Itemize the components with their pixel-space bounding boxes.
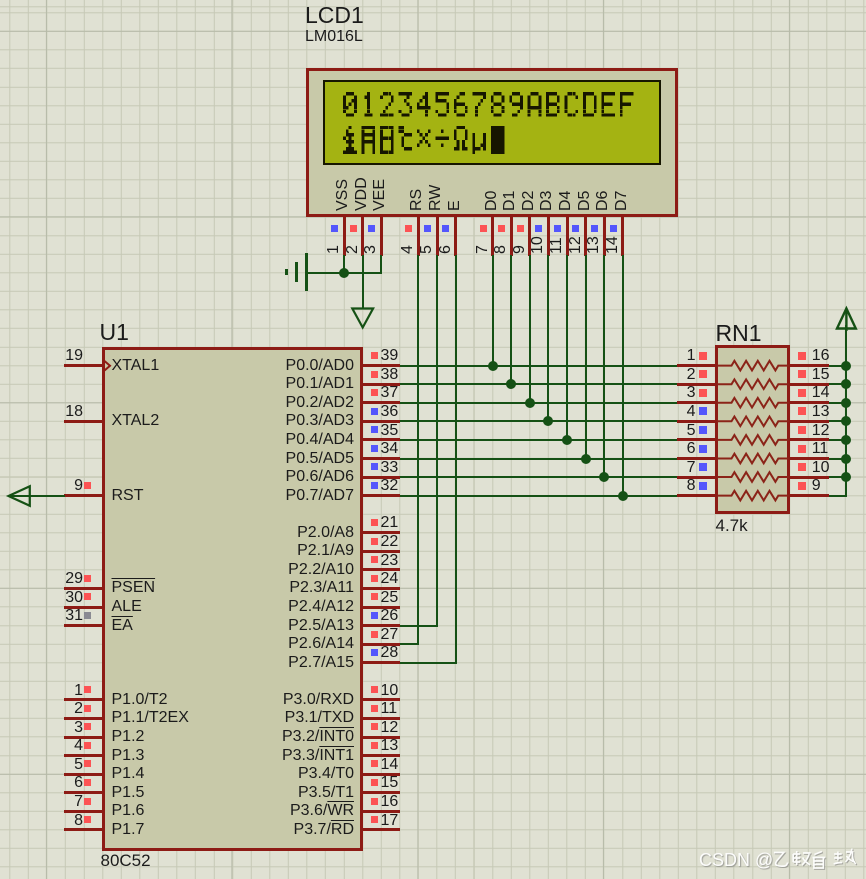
U1 pin 30 stub [64, 606, 103, 609]
junction D1/P0.1 [506, 379, 516, 389]
U1 pin 23 stub [363, 568, 401, 571]
IC U1 80C52 body [102, 347, 363, 852]
U1 pin label <span class="ov">EA [112, 618, 133, 635]
U1 pin label P3.7/RD [230, 822, 354, 839]
wire ground rail [307, 272, 383, 274]
wire P0.5 to RN1 [400, 458, 677, 460]
junction bus row 3 [841, 398, 851, 408]
pin number 4 [400, 245, 417, 254]
LCD pin label VEE [372, 179, 389, 211]
RN1 pin 10 stub [790, 476, 829, 479]
pin number 10 [812, 460, 830, 477]
U1 pin 35 stub [363, 438, 401, 441]
LCD pin label D0 [484, 191, 501, 211]
pin 8 state square [498, 225, 505, 232]
wire P0.1 to RN1 [400, 383, 677, 385]
U1 pin 12 stub [363, 736, 401, 739]
pin 6 state square [84, 779, 91, 786]
pin 3 state square [84, 723, 91, 730]
U1 pin label P1.3 [112, 748, 145, 765]
pin number 14 [812, 385, 830, 402]
U1 pin label P0.1/AD1 [230, 376, 354, 393]
U1 pin label P0.2/AD2 [230, 395, 354, 412]
label RN1 [716, 321, 762, 345]
junction D5/P0.5 [581, 454, 591, 464]
junction bus row 5 [841, 435, 851, 445]
RN1 pin 3 stub [677, 401, 716, 404]
pin 22 state square [371, 538, 378, 545]
ground terminal (down arrow) [350, 306, 376, 331]
pin 30 state square [84, 593, 91, 600]
RN1 pin 14 stub [790, 401, 829, 404]
U1 pin label P3.6/WR [230, 803, 354, 820]
pin number 8 [493, 245, 510, 254]
wire VSS pin1 down [343, 255, 345, 273]
pin number 2 [345, 245, 362, 254]
pin 1 state square [699, 352, 707, 360]
pin number 12 [568, 236, 585, 254]
pin number 1 [23, 683, 83, 700]
U1 pin 11 stub [363, 717, 401, 720]
pin 32 state square [371, 482, 378, 489]
wire RST [10, 495, 65, 497]
U1 pin 15 stub [363, 791, 401, 794]
pin 13 state square [591, 225, 598, 232]
pin number 38 [381, 367, 399, 384]
pin 12 state square [798, 426, 806, 434]
LCD pin 9 stub [528, 216, 531, 256]
U1 pin label P1.0/T2 [112, 692, 168, 709]
LCD screen [323, 80, 661, 164]
pin 10 state square [798, 463, 806, 471]
wire VEE pin3 down [380, 255, 382, 273]
watermark CSDN [699, 850, 773, 871]
pin 11 state square [554, 225, 561, 232]
U1 pin label P3.1/TXD [230, 710, 354, 727]
pin number 30 [23, 590, 83, 607]
junction bus row 6 [841, 454, 851, 464]
pin number 21 [381, 515, 399, 532]
pin number 11 [381, 701, 398, 718]
U1 pin 25 stub [363, 606, 401, 609]
U1 pin 24 stub [363, 587, 401, 590]
pin number 5 [23, 757, 83, 774]
junction D0/P0.0 [488, 361, 498, 371]
U1 pin 26 stub [363, 624, 401, 627]
pin 15 state square [798, 370, 806, 378]
LCD pin label E [447, 200, 464, 211]
pin 16 state square [371, 798, 378, 805]
U1 pin label P3.0/RXD [230, 692, 354, 709]
LCD pin label D7 [614, 191, 631, 211]
LCD pin label D5 [577, 191, 594, 211]
U1 pin label P1.4 [112, 766, 145, 783]
pin 7 state square [480, 225, 487, 232]
RN1 pin 4 stub [677, 420, 716, 423]
wire D4 down [566, 255, 568, 441]
pin number 3 [23, 720, 83, 737]
pin number 9 [812, 478, 821, 495]
pin number 23 [381, 553, 399, 570]
U1 pin 17 stub [363, 828, 401, 831]
LCD LCD1 body [306, 68, 678, 217]
pin number 6 [23, 775, 83, 792]
LCD pin 1 stub [343, 216, 346, 256]
U1 pin 10 stub [363, 698, 401, 701]
junction D3/P0.3 [543, 416, 553, 426]
pin number 3 [636, 385, 696, 402]
resistor pack RN1 body [715, 345, 790, 514]
junction D7/P0.7 [618, 491, 628, 501]
U1 pin 4 stub [64, 754, 103, 757]
pin 2 state square [350, 225, 357, 232]
label LM016L [305, 29, 363, 46]
pin number 7 [636, 460, 696, 477]
pin 5 state square [84, 760, 91, 767]
pin number 13 [586, 236, 603, 254]
U1 pin label P1.6 [112, 803, 145, 820]
U1 pin 19 stub [64, 364, 103, 367]
junction D6/P0.6 [599, 472, 609, 482]
pin 7 state square [699, 463, 707, 471]
pin 9 state square [798, 482, 806, 490]
LCD pin 5 stub [436, 216, 439, 256]
pin number 1 [326, 245, 343, 254]
wire RW down [436, 255, 438, 627]
pin 10 state square [371, 686, 378, 693]
LCD pin label D1 [502, 191, 519, 211]
U1 pin 29 stub [64, 587, 103, 590]
pin 10 state square [535, 225, 542, 232]
pin 5 state square [699, 426, 707, 434]
pin 4 state square [84, 742, 91, 749]
pin 6 state square [699, 445, 707, 453]
U1 pin 14 stub [363, 773, 401, 776]
pin 8 state square [84, 816, 91, 823]
U1 pin label P1.7 [112, 822, 145, 839]
U1 pin label XTAL2 [112, 413, 160, 430]
LCD pin 13 stub [603, 216, 606, 256]
LCD pin 12 stub [584, 216, 587, 256]
LCD display text [323, 80, 661, 165]
pin number 19 [23, 348, 83, 365]
LCD pin label RS [409, 189, 426, 211]
pin number 24 [381, 571, 399, 588]
U1 pin label P2.6/A14 [230, 636, 354, 653]
pin number 31 [23, 608, 83, 625]
pin number 16 [812, 348, 830, 365]
wire P0.0 to RN1 [400, 365, 677, 367]
pin number 7 [23, 794, 83, 811]
wire RN1 pin 15 to bus [829, 383, 847, 385]
pin 33 state square [371, 463, 378, 470]
RN1 pin 12 stub [790, 438, 829, 441]
RN1 pin 11 stub [790, 457, 829, 460]
RN1 pin 9 stub [790, 494, 829, 497]
U1 pin 16 stub [363, 810, 401, 813]
pin number 6 [438, 245, 455, 254]
U1 pin 3 stub [64, 736, 103, 739]
U1 pin 36 stub [363, 420, 401, 423]
U1 pin label P2.1/A9 [230, 543, 354, 560]
U1 pin 31 stub [64, 624, 103, 627]
pin number 15 [812, 367, 830, 384]
pin 27 state square [371, 631, 378, 638]
U1 pin label P0.5/AD5 [230, 451, 354, 468]
pin 12 state square [371, 723, 378, 730]
wire D7 down [622, 255, 624, 497]
wire RN1 pin 13 to bus [829, 420, 847, 422]
pin number 39 [381, 348, 399, 365]
LCD pin 6 stub [454, 216, 457, 256]
U1 pin label P0.7/AD7 [230, 488, 354, 505]
ground symbol [305, 253, 308, 292]
U1 pin label P0.6/AD6 [230, 469, 354, 486]
U1 pin label P0.0/AD0 [230, 358, 354, 375]
U1 pin 2 stub [64, 717, 103, 720]
LCD pin label VDD [354, 177, 371, 211]
LCD pin 14 stub [621, 216, 624, 256]
U1 pin label P3.3/INT1 [230, 748, 354, 765]
LCD pin label D2 [521, 191, 538, 211]
pin 1 state square [331, 225, 338, 232]
LCD pin 2 stub [361, 216, 364, 256]
wire RN1 pin 11 to bus [829, 458, 847, 460]
pin number 29 [23, 571, 83, 588]
pin 14 state square [371, 760, 378, 767]
U1 pin 39 stub [363, 364, 401, 367]
pin number 32 [381, 478, 399, 495]
pin 37 state square [371, 389, 378, 396]
pin 15 state square [371, 779, 378, 786]
U1 pin label P1.2 [112, 729, 145, 746]
power terminal (up arrow) [835, 306, 859, 331]
U1 pin 6 stub [64, 791, 103, 794]
wire power bus [845, 325, 847, 497]
U1 pin label P2.0/A8 [230, 525, 354, 542]
pin number 17 [381, 813, 399, 830]
U1 pin label XTAL1 [112, 358, 160, 375]
pin 29 state square [84, 575, 91, 582]
pin number 36 [381, 404, 399, 421]
U1 pin 9 stub [64, 494, 103, 497]
pin number 2 [23, 701, 83, 718]
U1 pin 1 stub [64, 698, 103, 701]
U1 pin 27 stub [363, 643, 401, 646]
pin number 15 [381, 775, 399, 792]
pin 4 state square [405, 225, 412, 232]
input terminal arrow (RST) [6, 485, 32, 507]
pin number 8 [23, 813, 83, 830]
pin number 33 [381, 460, 399, 477]
pin number 5 [419, 245, 436, 254]
wire D5 down [585, 255, 587, 460]
pin number 11 [549, 237, 566, 254]
LCD pin label D6 [595, 191, 612, 211]
pin number 25 [381, 590, 399, 607]
RN1 pin 2 stub [677, 383, 716, 386]
pin 14 state square [798, 389, 806, 397]
pin 26 state square [371, 612, 378, 619]
junction bus row 4 [841, 416, 851, 426]
pin 35 state square [371, 426, 378, 433]
RN1 pin 1 stub [677, 364, 716, 367]
pin 36 state square [371, 408, 378, 415]
U1 pin label RST [112, 488, 144, 505]
junction bus row 7 [841, 472, 851, 482]
LCD pin label RW [428, 185, 445, 211]
pin number 27 [381, 627, 399, 644]
junction D4/P0.4 [562, 435, 572, 445]
RN1 pin 16 stub [790, 364, 829, 367]
pin 6 state square [442, 225, 449, 232]
pin 2 state square [699, 370, 707, 378]
pin number 10 [530, 236, 547, 254]
wire P0.2 to RN1 [400, 402, 677, 404]
LCD pin label D4 [558, 191, 575, 211]
RN1 pin 5 stub [677, 438, 716, 441]
label LCD1 [305, 3, 364, 27]
RN1 pin 8 stub [677, 494, 716, 497]
U1 pin label P2.4/A12 [230, 599, 354, 616]
pin 28 state square [371, 649, 378, 656]
U1 pin 34 stub [363, 457, 401, 460]
U1 pin label P2.2/A10 [230, 562, 354, 579]
pin number 11 [812, 441, 829, 458]
pin 25 state square [371, 593, 378, 600]
pin number 1 [636, 348, 696, 365]
U1 pin 21 stub [363, 531, 401, 534]
LCD pin 4 stub [417, 216, 420, 256]
wire RS down [417, 255, 419, 646]
pin number 9 [23, 478, 83, 495]
junction bus row 1 [841, 361, 851, 371]
U1 pin label ALE [112, 599, 142, 616]
wire P0.3 to RN1 [400, 420, 677, 422]
pin 17 state square [371, 816, 378, 823]
pin number 12 [381, 720, 399, 737]
U1 pin label P3.4/T0 [230, 766, 354, 783]
U1 pin label <span class="ov">PSEN [112, 580, 156, 597]
U1 pin 13 stub [363, 754, 401, 757]
pin number 14 [381, 757, 399, 774]
pin 5 state square [424, 225, 431, 232]
pin 23 state square [371, 556, 378, 563]
U1 pin 18 stub [64, 420, 103, 423]
LCD pin label D3 [539, 191, 556, 211]
pin number 6 [636, 441, 696, 458]
U1 pin label P3.2/INT0 [230, 729, 354, 746]
U1 pin 32 stub [363, 494, 401, 497]
wire D6 down [603, 255, 605, 478]
wire D0 down [492, 255, 494, 367]
pin 11 state square [371, 705, 378, 712]
pin 4 state square [699, 407, 707, 415]
U1 pin label P0.3/AD3 [230, 413, 354, 430]
label 80C52 [101, 852, 151, 870]
RN1 pin 13 stub [790, 420, 829, 423]
LCD pin 11 stub [566, 216, 569, 256]
pin number 37 [381, 385, 399, 402]
pin number 4 [636, 404, 696, 421]
pin 34 state square [371, 445, 378, 452]
pin 3 state square [368, 225, 375, 232]
U1 pin 28 stub [363, 661, 401, 664]
pin number 3 [363, 245, 380, 254]
pin number 13 [381, 738, 399, 755]
junction VSS [339, 268, 349, 278]
pin 9 state square [84, 482, 91, 489]
U1 pin 7 stub [64, 810, 103, 813]
pin 11 state square [798, 445, 806, 453]
pin 13 state square [798, 407, 806, 415]
U1 pin 5 stub [64, 773, 103, 776]
label 4.7k [716, 517, 748, 535]
RN1 pin 6 stub [677, 457, 716, 460]
pin number 8 [636, 478, 696, 495]
pin 12 state square [572, 225, 579, 232]
pin number 2 [636, 367, 696, 384]
pin 31 state square [84, 612, 91, 619]
wire P2.5 to RW [400, 625, 438, 627]
pin 8 state square [699, 482, 707, 490]
wire D3 down [547, 255, 549, 423]
wire RN1 pin 10 to bus [829, 476, 847, 478]
U1 pin label P1.5 [112, 785, 145, 802]
pin 7 state square [84, 798, 91, 805]
pin number 34 [381, 441, 399, 458]
U1 pin 33 stub [363, 476, 401, 479]
RN1 pin 15 stub [790, 383, 829, 386]
wire D2 down [529, 255, 531, 404]
pin 39 state square [371, 352, 378, 359]
pin number 4 [23, 738, 83, 755]
U1 pin label P2.5/A13 [230, 618, 354, 635]
wire RN1 pin 12 to bus [829, 439, 847, 441]
wire P0.6 to RN1 [400, 476, 677, 478]
LCD pin 7 stub [491, 216, 494, 256]
U1 pin label P2.3/A11 [230, 580, 354, 597]
pin number 18 [23, 404, 83, 421]
LCD pin 3 stub [380, 216, 383, 256]
U1 pin 37 stub [363, 401, 401, 404]
LCD pin label VSS [335, 179, 352, 211]
RN1 pin 7 stub [677, 476, 716, 479]
wire D1 down [510, 255, 512, 386]
U1 pin 22 stub [363, 550, 401, 553]
pin number 26 [381, 608, 399, 625]
pin 3 state square [699, 389, 707, 397]
wire P0.7 to RN1 [400, 495, 677, 497]
pin number 13 [812, 404, 830, 421]
wire E down [455, 255, 457, 664]
U1 pin 38 stub [363, 383, 401, 386]
pin number 28 [381, 645, 399, 662]
U1 pin label P0.4/AD4 [230, 432, 354, 449]
LCD pin 10 stub [547, 216, 550, 256]
clock marker XTAL1 [104, 360, 112, 372]
junction bus row 2 [841, 379, 851, 389]
pin 24 state square [371, 575, 378, 582]
pin number 7 [475, 245, 492, 254]
junction D2/P0.2 [525, 398, 535, 408]
pin 9 state square [517, 225, 524, 232]
pin 21 state square [371, 519, 378, 526]
pin 1 state square [84, 686, 91, 693]
pin number 5 [636, 423, 696, 440]
pin 16 state square [798, 352, 806, 360]
wire RN1 pin 9 to bus [829, 495, 847, 497]
